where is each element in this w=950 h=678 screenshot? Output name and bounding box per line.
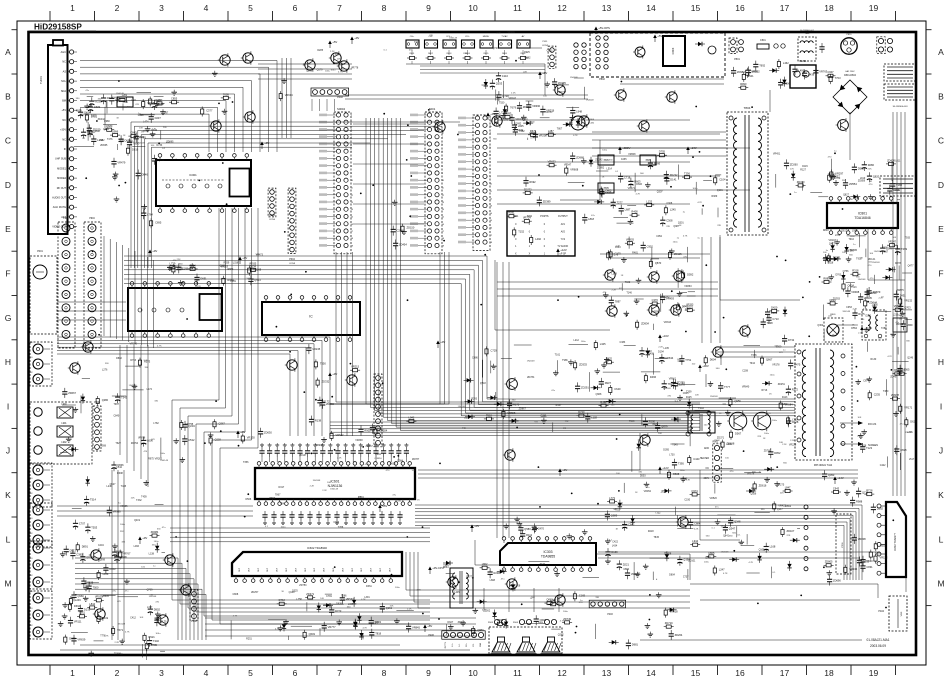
svg-text:VR191: VR191 [507, 31, 515, 34]
svg-text:18: 18 [824, 668, 834, 678]
svg-text:+8V: +8V [427, 624, 432, 628]
svg-text:D937: D937 [605, 381, 612, 385]
svg-text:L119: L119 [103, 616, 109, 620]
svg-text:2003.06.09: 2003.06.09 [870, 644, 886, 648]
svg-text:15: 15 [691, 3, 701, 13]
svg-text:5: 5 [248, 3, 253, 13]
svg-text:D952: D952 [774, 451, 781, 455]
svg-text:C547: C547 [373, 621, 379, 624]
svg-text:+12V: +12V [662, 466, 669, 470]
svg-text:J: J [939, 446, 943, 456]
svg-text:VR845: VR845 [102, 595, 110, 598]
svg-text:2.2K: 2.2K [496, 32, 501, 34]
svg-text:L466: L466 [134, 545, 140, 548]
svg-text:ZD504: ZD504 [379, 428, 387, 432]
svg-text:Q841: Q841 [723, 534, 730, 537]
svg-text:SDA: SDA [61, 90, 66, 93]
svg-text:T845: T845 [653, 536, 659, 539]
svg-text:C422: C422 [880, 464, 886, 467]
svg-text:100u: 100u [602, 150, 608, 152]
svg-text:C: C [5, 136, 11, 146]
svg-text:L462: L462 [783, 61, 789, 65]
svg-text:ZD934: ZD934 [641, 322, 649, 326]
svg-text:100u: 100u [281, 527, 287, 529]
svg-text:R319: R319 [580, 115, 586, 118]
svg-text:AGC MUTE: AGC MUTE [53, 206, 67, 209]
svg-text:ZD458: ZD458 [664, 553, 672, 556]
svg-text:+9V: +9V [332, 372, 337, 376]
svg-text:VR878: VR878 [138, 437, 146, 440]
svg-text:D592: D592 [687, 272, 694, 276]
svg-text:R127: R127 [800, 168, 806, 171]
svg-text:J91: J91 [29, 558, 32, 560]
svg-text:1N4148: 1N4148 [905, 432, 913, 434]
svg-text:D115: D115 [91, 114, 97, 117]
svg-text:T240: T240 [153, 639, 159, 643]
svg-text:C532: C532 [518, 129, 524, 132]
svg-text:D804: D804 [669, 574, 675, 577]
svg-text:1N4148: 1N4148 [160, 460, 168, 462]
svg-text:AUDIO OUT: AUDIO OUT [52, 197, 66, 200]
svg-text:2.2K: 2.2K [858, 332, 863, 334]
svg-text:2.2K: 2.2K [322, 490, 327, 492]
svg-text:J92: J92 [29, 575, 32, 577]
svg-text:ZD264: ZD264 [675, 633, 683, 637]
svg-text:D801-D804: D801-D804 [844, 75, 856, 77]
svg-text:C383: C383 [620, 341, 626, 344]
svg-text:ZD101: ZD101 [688, 559, 696, 562]
svg-text:VR519: VR519 [221, 265, 229, 268]
svg-text:RL801: RL801 [799, 60, 807, 63]
svg-text:Q101: Q101 [717, 189, 724, 192]
svg-text:L511: L511 [131, 99, 137, 102]
svg-text:L919: L919 [860, 177, 866, 180]
svg-text:D998: D998 [893, 188, 900, 192]
svg-text:MENU: MENU [483, 36, 490, 38]
svg-text:L276: L276 [102, 368, 108, 371]
svg-text:VR608: VR608 [628, 153, 636, 156]
svg-text:100u: 100u [772, 420, 778, 422]
svg-text:B: B [5, 91, 11, 101]
svg-text:100u: 100u [680, 470, 686, 472]
svg-text:ZD719: ZD719 [665, 621, 673, 625]
svg-text:L138: L138 [149, 552, 155, 555]
svg-text:+5V: +5V [332, 40, 337, 44]
svg-text:T801: T801 [805, 33, 811, 35]
svg-text:GND: GND [480, 642, 482, 647]
svg-text:Q118: Q118 [215, 438, 222, 442]
svg-text:VR473: VR473 [256, 253, 264, 256]
svg-text:L944: L944 [692, 539, 698, 543]
svg-text:IC303: IC303 [543, 550, 552, 554]
svg-text:4: 4 [204, 3, 209, 13]
svg-text:L844: L844 [89, 602, 95, 606]
svg-text:+16V: +16V [662, 334, 669, 338]
svg-text:VR178: VR178 [772, 363, 780, 366]
svg-text:VR755: VR755 [185, 422, 193, 426]
svg-text:D474: D474 [664, 297, 670, 300]
svg-text:D651: D651 [200, 277, 207, 281]
svg-text:L690: L690 [872, 303, 878, 306]
svg-text:C840: C840 [113, 414, 119, 417]
svg-text:1N4148: 1N4148 [842, 311, 850, 313]
svg-text:C986: C986 [472, 357, 478, 360]
svg-text:L847: L847 [785, 485, 791, 489]
svg-text:S001: S001 [429, 107, 436, 111]
svg-text:NC: NC [706, 468, 710, 470]
svg-text:ZD467: ZD467 [890, 376, 898, 379]
svg-text:13: 13 [602, 668, 612, 678]
svg-text:+5V: +5V [382, 504, 387, 508]
svg-text:Q962: Q962 [525, 56, 532, 59]
svg-text:10K: 10K [139, 617, 143, 619]
svg-text:17: 17 [780, 668, 790, 678]
svg-text:19: 19 [869, 668, 879, 678]
svg-text:R990: R990 [740, 82, 747, 86]
svg-text:C376: C376 [652, 298, 659, 302]
svg-text:C383: C383 [482, 84, 488, 87]
svg-text:D877: D877 [466, 576, 472, 579]
svg-text:D131: D131 [84, 608, 91, 612]
svg-text:J91: J91 [29, 518, 32, 520]
svg-text:J92: J92 [29, 493, 32, 495]
svg-text:C188: C188 [781, 403, 787, 406]
svg-text:100u: 100u [764, 433, 770, 435]
svg-text:Q362: Q362 [817, 324, 824, 327]
svg-text:R692: R692 [529, 180, 536, 184]
svg-text:K: K [5, 490, 11, 500]
svg-text:R508: R508 [673, 472, 680, 476]
svg-text:Q307: Q307 [657, 190, 664, 193]
svg-text:Q280: Q280 [102, 398, 109, 402]
svg-text:T770: T770 [674, 421, 680, 424]
svg-text:J90: J90 [29, 541, 32, 543]
svg-text:T332: T332 [655, 511, 661, 514]
svg-text:+9V: +9V [240, 430, 245, 434]
svg-text:C308: C308 [666, 218, 673, 222]
svg-text:C165: C165 [579, 593, 586, 597]
svg-text:Q603: Q603 [540, 618, 547, 622]
svg-text:+9V: +9V [152, 249, 157, 253]
svg-text:Q956: Q956 [734, 399, 741, 403]
svg-text:TV/AV: TV/AV [501, 35, 508, 38]
svg-text:T510: T510 [486, 413, 492, 417]
svg-text:D451: D451 [600, 400, 607, 404]
svg-text:T513: T513 [851, 286, 857, 289]
svg-text:ZD251: ZD251 [778, 383, 786, 386]
svg-text:C943: C943 [833, 486, 840, 490]
svg-text:R259: R259 [224, 261, 230, 264]
svg-text:1: 1 [70, 668, 75, 678]
svg-text:2: 2 [115, 3, 120, 13]
svg-text:D466: D466 [650, 375, 657, 379]
svg-text:CON2: CON2 [542, 45, 549, 47]
svg-text:Q925: Q925 [524, 51, 531, 54]
svg-text:E: E [5, 224, 11, 234]
svg-text:D503: D503 [640, 474, 646, 477]
svg-text:2.2K: 2.2K [144, 360, 149, 362]
svg-text:S0004: S0004 [337, 107, 346, 111]
svg-text:2.2K: 2.2K [407, 609, 412, 611]
svg-text:T530: T530 [499, 102, 505, 105]
svg-text:Q246: Q246 [907, 357, 914, 360]
svg-text:D308: D308 [138, 114, 144, 117]
svg-text:T807: T807 [557, 127, 563, 130]
svg-text:L133: L133 [646, 199, 652, 203]
svg-text:D310: D310 [151, 129, 157, 132]
svg-text:4.7K: 4.7K [233, 616, 238, 618]
svg-text:C952: C952 [656, 235, 662, 238]
svg-text:ZD231: ZD231 [500, 117, 508, 121]
svg-text:IC801: IC801 [858, 212, 867, 216]
svg-text:RF OUT: RF OUT [57, 187, 67, 190]
svg-text:L687: L687 [625, 208, 631, 212]
svg-text:VR777: VR777 [328, 625, 336, 629]
svg-text:P902: P902 [63, 218, 69, 220]
svg-text:ZD107: ZD107 [787, 529, 795, 533]
svg-text:T703: T703 [835, 76, 841, 80]
svg-text:+9V: +9V [542, 71, 547, 75]
svg-text:10K: 10K [827, 303, 831, 305]
svg-text:Q870: Q870 [655, 261, 662, 265]
svg-text:CH+: CH+ [410, 36, 415, 38]
svg-text:uP SP: uP SP [560, 254, 567, 256]
svg-text:ZD257: ZD257 [251, 591, 259, 594]
svg-text:L286: L286 [568, 121, 574, 124]
svg-text:C103: C103 [109, 567, 116, 571]
svg-text:T241: T241 [280, 503, 286, 506]
svg-text:C628: C628 [861, 445, 867, 448]
svg-text:ZD690: ZD690 [833, 579, 841, 583]
svg-text:4.7K: 4.7K [362, 628, 367, 630]
svg-text:C902: C902 [647, 245, 654, 249]
svg-text:2.2K: 2.2K [790, 440, 795, 442]
svg-text:D996: D996 [112, 130, 119, 134]
svg-text:Q627: Q627 [110, 483, 117, 486]
svg-text:C781: C781 [326, 595, 332, 598]
svg-text:R389: R389 [711, 195, 717, 198]
svg-text:D108: D108 [514, 584, 520, 587]
svg-text:2.2K: 2.2K [658, 347, 663, 349]
svg-text:C884: C884 [623, 568, 629, 571]
svg-text:R418: R418 [648, 530, 654, 533]
svg-text:L: L [939, 534, 944, 544]
svg-text:R175: R175 [335, 54, 341, 57]
svg-text:9: 9 [426, 3, 431, 13]
svg-text:D308: D308 [497, 618, 504, 622]
svg-text:C737: C737 [683, 576, 689, 579]
svg-text:Q787: Q787 [685, 308, 692, 311]
svg-text:1N4148: 1N4148 [449, 38, 457, 40]
svg-text:T437: T437 [540, 563, 546, 566]
svg-text:MODE1: MODE1 [57, 167, 67, 170]
svg-text:L337: L337 [147, 606, 153, 609]
svg-text:ZD866: ZD866 [326, 402, 334, 406]
svg-text:4.7K: 4.7K [361, 599, 366, 601]
svg-text:F801: F801 [760, 39, 766, 42]
svg-text:D732: D732 [788, 338, 795, 342]
svg-text:+9V: +9V [440, 340, 445, 344]
svg-text:H: H [938, 357, 944, 367]
svg-text:T380: T380 [883, 390, 889, 393]
svg-text:ZD867: ZD867 [519, 408, 527, 411]
svg-text:A: A [938, 47, 944, 57]
svg-text:D981: D981 [632, 642, 639, 646]
svg-text:36-23B300-002: 36-23B300-002 [800, 30, 815, 32]
svg-text:RY/TTL: RY/TTL [445, 642, 447, 648]
svg-text:1N4148: 1N4148 [858, 279, 866, 281]
svg-text:ZD837: ZD837 [366, 445, 374, 448]
svg-text:6A1 250V: 6A1 250V [845, 70, 855, 73]
svg-text:R632: R632 [390, 462, 396, 465]
svg-text:R251: R251 [246, 637, 252, 640]
svg-text:D125: D125 [686, 396, 692, 399]
svg-text:2.2K: 2.2K [615, 246, 620, 248]
svg-text:D420: D420 [771, 305, 778, 309]
svg-text:P400: P400 [428, 634, 434, 637]
svg-text:P001: P001 [37, 250, 43, 253]
svg-text:R716: R716 [761, 389, 767, 392]
svg-text:8: 8 [382, 668, 387, 678]
svg-text:1N4148: 1N4148 [586, 100, 594, 102]
svg-text:ZD147: ZD147 [299, 454, 307, 457]
svg-text:P404: P404 [878, 610, 884, 613]
svg-text:D282: D282 [877, 506, 884, 510]
svg-text:4.7K: 4.7K [863, 308, 868, 310]
svg-text:Q722: Q722 [158, 158, 165, 162]
svg-text:L710: L710 [792, 417, 798, 421]
svg-text:ZD438: ZD438 [887, 158, 895, 162]
svg-text:D838: D838 [336, 602, 342, 605]
svg-text:C443: C443 [693, 457, 700, 461]
svg-text:D694: D694 [74, 604, 81, 608]
svg-text:2.2K: 2.2K [857, 435, 862, 437]
svg-text:R286: R286 [868, 163, 875, 167]
svg-text:+30V: +30V [60, 129, 66, 132]
svg-text:D278: D278 [895, 262, 901, 265]
svg-text:C603: C603 [547, 49, 553, 52]
svg-text:ZD371: ZD371 [717, 437, 725, 440]
svg-text:T679: T679 [510, 106, 516, 110]
svg-text:C544: C544 [116, 466, 122, 469]
svg-text:D361: D361 [366, 585, 372, 588]
svg-text:T356: T356 [243, 461, 249, 464]
svg-text:D840: D840 [823, 229, 829, 232]
svg-text:AV2: AV2 [561, 230, 566, 233]
svg-text:R408: R408 [631, 210, 638, 214]
svg-text:100u: 100u [155, 633, 161, 635]
svg-text:G: G [938, 313, 945, 323]
svg-text:H: H [5, 357, 11, 367]
svg-text:1N4148: 1N4148 [303, 64, 311, 66]
svg-text:C: C [938, 136, 944, 146]
svg-text:L802: L802 [482, 562, 488, 566]
svg-text:C439: C439 [808, 72, 815, 76]
svg-text:13: 13 [602, 3, 612, 13]
svg-text:2.2K: 2.2K [330, 51, 335, 53]
svg-text:L611: L611 [895, 160, 901, 163]
svg-text:VR472: VR472 [628, 187, 636, 190]
svg-text:4.7K: 4.7K [530, 137, 535, 139]
svg-text:4.7K: 4.7K [560, 621, 565, 623]
svg-text:Q960: Q960 [77, 594, 84, 598]
svg-text:C640: C640 [614, 387, 621, 391]
svg-text:R748: R748 [143, 130, 149, 133]
svg-text:ZD630: ZD630 [264, 431, 272, 435]
svg-text:Q547: Q547 [729, 527, 736, 531]
svg-text:D846: D846 [142, 173, 149, 177]
svg-text:VR903: VR903 [626, 238, 634, 242]
svg-text:ZD667: ZD667 [68, 391, 76, 395]
svg-text:4.7K: 4.7K [723, 573, 728, 575]
svg-text:ZD968: ZD968 [576, 155, 584, 159]
svg-text:C330: C330 [684, 498, 690, 501]
svg-text:T586: T586 [341, 594, 347, 597]
svg-text:100u: 100u [154, 541, 160, 543]
svg-text:R593: R593 [269, 497, 275, 500]
svg-text:L: L [6, 534, 11, 544]
svg-text:T123: T123 [866, 446, 872, 450]
svg-text:R175: R175 [858, 312, 865, 316]
svg-text:L988: L988 [852, 229, 858, 232]
svg-text:L902: L902 [61, 442, 67, 444]
svg-text:1N4148: 1N4148 [570, 77, 578, 79]
svg-text:100u: 100u [190, 268, 196, 270]
svg-text:ZD717: ZD717 [559, 91, 567, 94]
svg-text:ZD332: ZD332 [322, 380, 330, 384]
svg-text:10: 10 [468, 668, 478, 678]
svg-text:CON10: CON10 [374, 458, 382, 460]
svg-text:FBT-08A01 T444: FBT-08A01 T444 [814, 464, 833, 467]
svg-text:100u: 100u [692, 188, 698, 190]
svg-text:T459: T459 [141, 496, 147, 499]
svg-text:1N4148: 1N4148 [117, 623, 125, 625]
svg-text:T867: T867 [275, 493, 281, 496]
svg-text:Q953: Q953 [828, 473, 835, 477]
svg-text:L381: L381 [231, 280, 237, 283]
svg-text:3: 3 [159, 668, 164, 678]
svg-text:VR520: VR520 [710, 497, 718, 500]
svg-text:L582: L582 [99, 139, 105, 142]
svg-text:Q888: Q888 [611, 514, 618, 518]
svg-text:22K: 22K [757, 436, 761, 438]
svg-text:VR130: VR130 [247, 436, 255, 440]
svg-text:22K: 22K [523, 71, 527, 73]
svg-text:P011: P011 [543, 41, 549, 43]
svg-text:19: 19 [869, 3, 879, 13]
svg-text:ZD232: ZD232 [670, 173, 678, 177]
svg-text:D: D [5, 180, 11, 190]
svg-text:D113: D113 [782, 396, 788, 399]
svg-text:I: I [940, 401, 942, 411]
svg-text:VR390: VR390 [532, 104, 540, 108]
svg-text:B: B [938, 91, 944, 101]
svg-text:J91: J91 [29, 478, 32, 480]
svg-text:VR940: VR940 [315, 444, 323, 447]
svg-text:1N4148: 1N4148 [313, 480, 321, 482]
svg-text:T658: T658 [118, 140, 124, 143]
svg-text:ZD900: ZD900 [523, 105, 531, 109]
svg-text:P403: P403 [607, 614, 613, 616]
svg-text:ZD115: ZD115 [674, 252, 682, 256]
svg-text:Q968: Q968 [595, 393, 602, 396]
svg-text:VR634: VR634 [285, 93, 293, 97]
svg-text:D617: D617 [841, 230, 847, 233]
svg-text:VR935: VR935 [249, 263, 257, 266]
svg-text:D629: D629 [910, 419, 917, 423]
svg-text:ZD495: ZD495 [558, 81, 566, 85]
svg-text:D755: D755 [659, 150, 666, 154]
